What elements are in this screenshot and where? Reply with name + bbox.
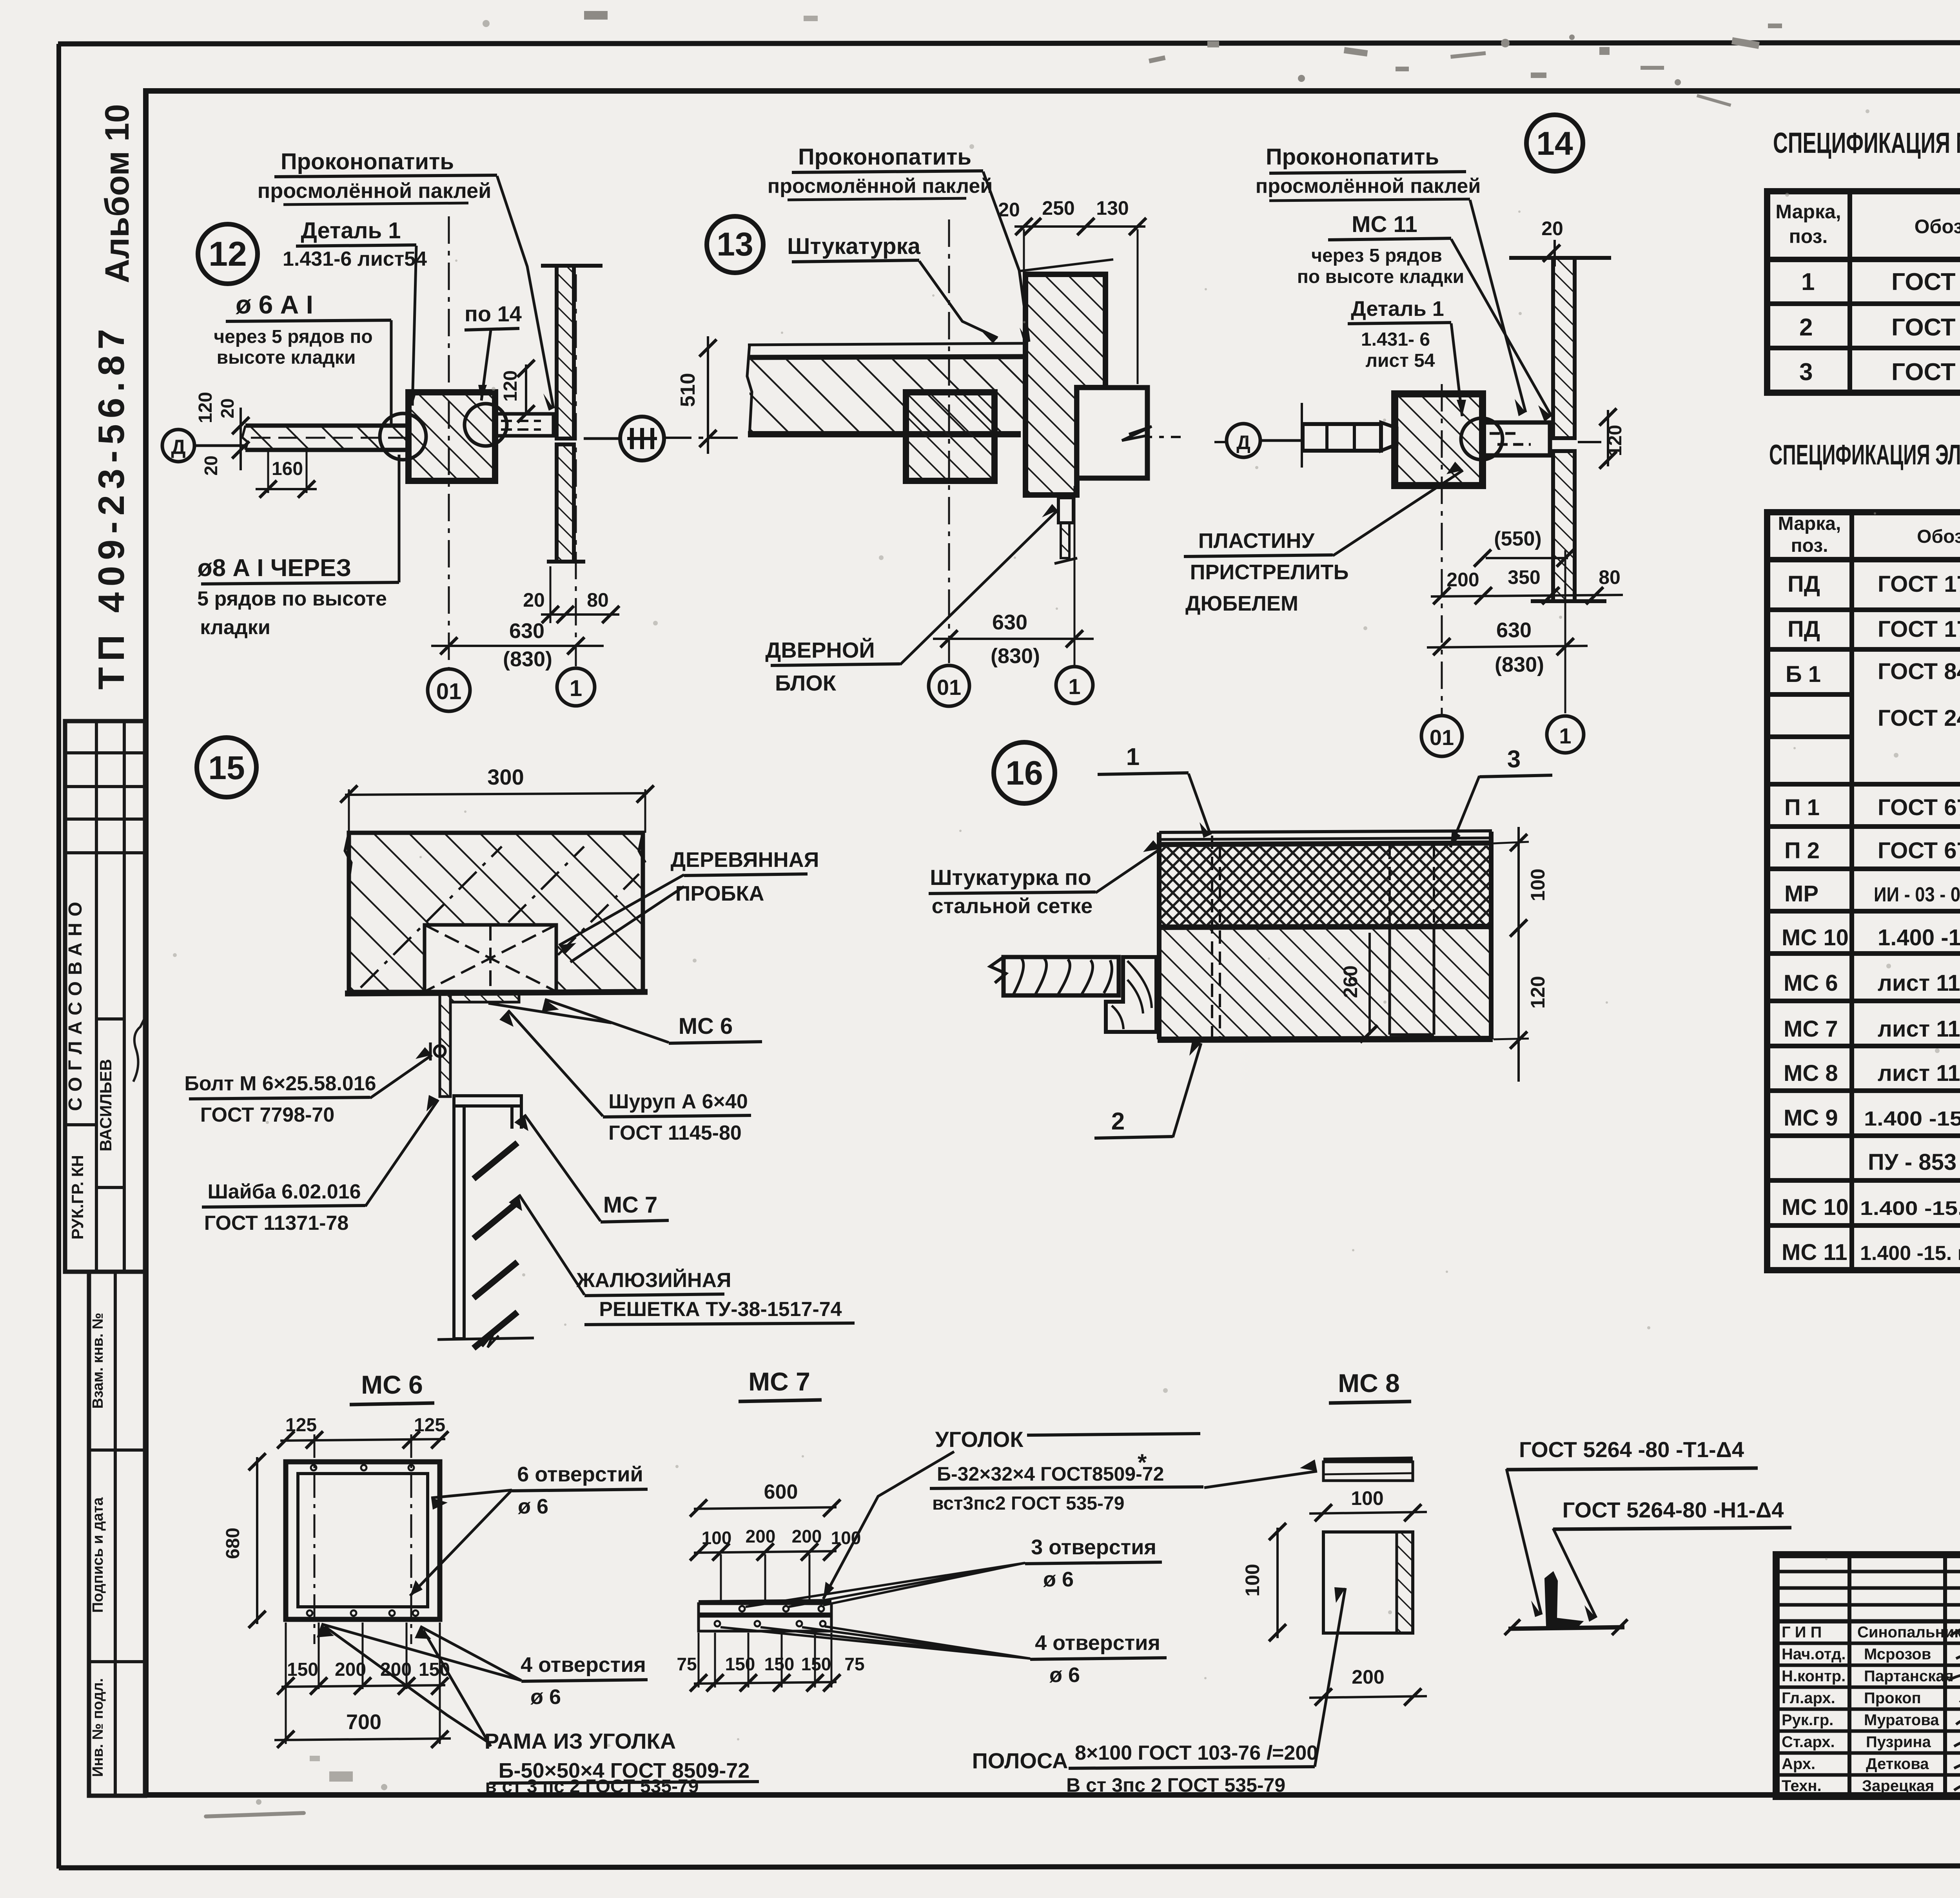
label Шуруп xyxy=(499,1010,751,1144)
svg-text:по высоте кладки: по высоте кладки xyxy=(1297,266,1464,287)
svg-text:ø 6: ø 6 xyxy=(1049,1663,1080,1687)
label Штукатурка по стальной сетке xyxy=(929,840,1160,918)
svg-text:ГОСТ 17280 -79: ГОСТ 17280 -79 xyxy=(1878,571,1960,597)
dim 100 horizontal xyxy=(1309,1487,1427,1521)
svg-text:20: 20 xyxy=(1541,218,1563,239)
svg-text:700: 700 xyxy=(346,1710,381,1734)
svg-text:Д: Д xyxy=(171,436,185,459)
outer border bottom xyxy=(59,1865,1960,1868)
label MC7 xyxy=(514,1115,669,1222)
node 14 bubble xyxy=(1526,115,1583,171)
svg-text:ГОСТ 9573-82: ГОСТ 9573-82 xyxy=(1891,268,1960,295)
position label 3 xyxy=(1450,746,1552,847)
svg-text:(550): (550) xyxy=(1494,528,1541,550)
dim 300 xyxy=(340,765,654,833)
staff rows xyxy=(1782,1624,1960,1795)
svg-text:МР: МР xyxy=(1784,881,1818,906)
svg-text:ø 6: ø 6 xyxy=(518,1495,548,1518)
svg-text:680: 680 xyxy=(223,1528,243,1559)
svg-text:600: 600 xyxy=(764,1481,798,1503)
svg-text:80: 80 xyxy=(587,589,609,611)
svg-text:РУК.ГР. КН: РУК.ГР. КН xyxy=(68,1155,87,1240)
wall panel vertical xyxy=(1509,258,1611,601)
svg-text:лист 54: лист 54 xyxy=(1366,350,1435,371)
svg-text:Партанская: Партанская xyxy=(1864,1668,1954,1685)
svg-text:ø 6 А I: ø 6 А I xyxy=(236,290,313,319)
column section xyxy=(380,392,507,481)
svg-text:5 рядов по высоте: 5 рядов по высоте xyxy=(197,587,387,610)
svg-text:Шайба 6.02.016: Шайба 6.02.016 xyxy=(207,1180,361,1203)
svg-text:1: 1 xyxy=(1126,743,1140,770)
svg-text:просмолённой паклей: просмолённой паклей xyxy=(768,175,993,198)
label MC6 xyxy=(488,999,762,1043)
dims 125 125 xyxy=(277,1415,448,1448)
node 13 bubble xyxy=(707,216,763,273)
svg-text:2: 2 xyxy=(1111,1108,1125,1135)
table 2 grid xyxy=(1767,512,1960,1270)
svg-text:(830): (830) xyxy=(991,644,1040,668)
svg-text:ВАСИЛЬЕВ: ВАСИЛЬЕВ xyxy=(96,1059,115,1151)
svg-text:Гл.арх.: Гл.арх. xyxy=(1782,1690,1835,1707)
svg-text:75: 75 xyxy=(677,1654,697,1674)
svg-text:вст3пс2 ГОСТ 535-79: вст3пс2 ГОСТ 535-79 xyxy=(932,1493,1124,1514)
svg-text:Штукатурка: Штукатурка xyxy=(787,234,920,259)
120 dim at plate xyxy=(500,360,535,422)
svg-text:Болт М 6×25.58.016: Болт М 6×25.58.016 xyxy=(184,1072,376,1095)
svg-text:2: 2 xyxy=(1799,314,1813,341)
dim 20 80 xyxy=(523,566,619,623)
svg-text:ПОЛОСА: ПОЛОСА xyxy=(972,1748,1068,1773)
svg-text:Альбом 10: Альбом 10 xyxy=(98,104,136,283)
svg-text:Муратова: Муратова xyxy=(1864,1711,1939,1729)
svg-text:МС 7: МС 7 xyxy=(748,1367,810,1396)
table 1 data xyxy=(1799,266,1960,388)
svg-text:ГОСТ 5781-82: ГОСТ 5781-82 xyxy=(1891,314,1960,341)
axis III bubble xyxy=(584,417,664,460)
svg-text:через 5 рядов по: через 5 рядов по xyxy=(214,326,372,347)
svg-text:Проконопатить: Проконопатить xyxy=(798,144,971,170)
label 3 отверстия xyxy=(746,1535,1162,1607)
svg-text:ГОСТ 5336-80: ГОСТ 5336-80 xyxy=(1891,359,1960,386)
svg-text:300: 300 xyxy=(487,765,524,789)
table 1 header texts xyxy=(1775,200,1960,258)
dim 630 (830) xyxy=(1427,618,1588,676)
node 16 bubble xyxy=(994,742,1055,803)
svg-text:Ст.арх.: Ст.арх. xyxy=(1782,1733,1835,1751)
svg-text:125: 125 xyxy=(285,1415,317,1436)
svg-text:(830): (830) xyxy=(503,647,552,671)
svg-text:БЛОК: БЛОК xyxy=(775,671,837,695)
svg-text:РАМА ИЗ УГОЛКА: РАМА ИЗ УГОЛКА xyxy=(485,1729,676,1753)
wooden plug xyxy=(425,925,556,992)
svg-text:Г И П: Г И П xyxy=(1782,1624,1822,1641)
svg-text:МС 8: МС 8 xyxy=(1338,1369,1400,1398)
svg-text:ГОСТ 8486 -66: ГОСТ 8486 -66 xyxy=(1878,659,1960,684)
anchor plate xyxy=(1483,422,1550,455)
dims 75 150 150 150 75 xyxy=(677,1633,864,1691)
svg-text:1.431-6 лист54: 1.431-6 лист54 xyxy=(283,248,427,270)
label Рама из уголка xyxy=(325,1626,759,1797)
svg-text:ПРОБКА: ПРОБКА xyxy=(675,882,764,905)
slab section xyxy=(747,343,1025,435)
svg-text:1.431- 6: 1.431- 6 xyxy=(1361,329,1430,350)
wall strip plan xyxy=(242,426,408,450)
position label 2 xyxy=(1094,1039,1201,1138)
svg-text:100: 100 xyxy=(1527,868,1549,901)
louvre slats xyxy=(474,1143,517,1348)
masonry block xyxy=(345,833,648,993)
bottom dims 150 200 200 150 xyxy=(277,1622,450,1744)
top dims 20 250 130 xyxy=(998,197,1146,384)
svg-text:МС 8: МС 8 xyxy=(1784,1060,1838,1086)
dim 630 (830) xyxy=(431,619,604,671)
axis bubble 1 xyxy=(1056,667,1093,703)
svg-text:510: 510 xyxy=(677,373,699,407)
svg-text:Обозначение: Обозначение xyxy=(1915,216,1960,237)
svg-text:(830): (830) xyxy=(1495,653,1544,676)
svg-text:Б 1: Б 1 xyxy=(1786,662,1821,687)
label ø6 AI xyxy=(214,290,391,424)
svg-text:СОГЛАСОВАНО: СОГЛАСОВАНО xyxy=(65,896,86,1111)
svg-text:20: 20 xyxy=(217,398,238,418)
dowel plate below wall xyxy=(1054,498,1077,564)
svg-text:ГОСТ 17280 -79: ГОСТ 17280 -79 xyxy=(1878,616,1960,642)
svg-text:1: 1 xyxy=(1068,674,1080,699)
svg-text:ПЛАСТИНУ: ПЛАСТИНУ xyxy=(1198,529,1315,553)
right dims 100 120 xyxy=(1494,827,1549,1082)
svg-text:ПД: ПД xyxy=(1788,616,1820,642)
svg-text:СПЕЦИФИКАЦИЯ ЭЛЕМЕНТОВ ЗАМА: СПЕЦИФИКАЦИЯ ЭЛЕМЕНТОВ ЗАМАРКИРОВАННЫХ Н… xyxy=(1769,439,1960,471)
axis lines xyxy=(1441,384,1443,714)
svg-text:100: 100 xyxy=(1351,1487,1383,1509)
svg-text:П 2: П 2 xyxy=(1784,838,1820,863)
svg-text:Проконопатить: Проконопатить xyxy=(1266,144,1439,170)
svg-text:200: 200 xyxy=(1446,569,1479,591)
svg-text:В ст 3пс 2 ГОСТ 535-79: В ст 3пс 2 ГОСТ 535-79 xyxy=(1066,1774,1285,1796)
svg-text:лист 11: лист 11 xyxy=(1878,1060,1960,1086)
svg-text:3 отверстия: 3 отверстия xyxy=(1031,1535,1156,1559)
svg-text:в ст 3 пс 2 ГОСТ 535-79: в ст 3 пс 2 ГОСТ 535-79 xyxy=(485,1776,699,1797)
label Болт М6 xyxy=(184,1047,432,1126)
dim 20 top xyxy=(1541,218,1563,266)
svg-text:по 14: по 14 xyxy=(465,301,522,326)
grille bottom break xyxy=(437,1332,534,1347)
svg-text:Обозначение: Обозначение xyxy=(1917,526,1960,547)
svg-text:П 1: П 1 xyxy=(1784,795,1820,820)
svg-text:кладки: кладки xyxy=(200,616,270,639)
axis bubble 01 xyxy=(929,665,969,706)
svg-text:ПРИСТРЕЛИТЬ: ПРИСТРЕЛИТЬ xyxy=(1190,560,1349,584)
grille channel MC7 xyxy=(454,1096,521,1339)
label Жалюзийная решетка xyxy=(509,1195,855,1325)
svg-text:630: 630 xyxy=(1496,618,1532,642)
top flange xyxy=(1323,1459,1413,1481)
brick band xyxy=(1158,832,1493,1040)
svg-text:МС 9: МС 9 xyxy=(1784,1105,1838,1131)
node 15 bubble xyxy=(197,738,256,797)
axis Д bubble xyxy=(162,430,245,462)
label Шайба xyxy=(202,1095,438,1235)
table 2 header texts xyxy=(1778,512,1960,565)
window sill board xyxy=(990,957,1156,1032)
position label 1 xyxy=(1098,743,1210,838)
svg-text:МС 6: МС 6 xyxy=(1784,970,1838,996)
svg-text:75: 75 xyxy=(844,1654,864,1674)
weld label T1 xyxy=(1506,1437,1758,1617)
svg-text:200: 200 xyxy=(335,1659,366,1680)
dims 200 350 80 xyxy=(1431,566,1623,604)
svg-text:просмолённой паклей: просмолённой паклей xyxy=(1256,175,1481,198)
anchor rod xyxy=(1302,403,1397,468)
table 1 grid xyxy=(1767,191,1960,393)
svg-text:20: 20 xyxy=(998,199,1020,221)
svg-text:Н.контр.: Н.контр. xyxy=(1782,1668,1846,1685)
svg-text:ТП 409-23-56.87: ТП 409-23-56.87 xyxy=(91,323,132,689)
label 4 отверстия xyxy=(317,1624,648,1709)
svg-text:Инв. № подл.: Инв. № подл. xyxy=(90,1678,106,1777)
signatures xyxy=(1948,1625,1960,1834)
svg-text:16: 16 xyxy=(1005,754,1043,792)
dim 260 xyxy=(1339,933,1377,1042)
svg-text:ПД: ПД xyxy=(1788,571,1820,597)
dim 630 (830) xyxy=(933,611,1094,668)
svg-text:3: 3 xyxy=(1799,359,1813,386)
svg-text:1.400 -15: 1.400 -15 xyxy=(1878,925,1960,950)
svg-text:20: 20 xyxy=(201,455,221,475)
svg-text:Техн.: Техн. xyxy=(1782,1777,1822,1795)
title MC 6 xyxy=(350,1370,434,1405)
svg-text:250: 250 xyxy=(1042,197,1074,219)
svg-text:ГОСТ 1145-80: ГОСТ 1145-80 xyxy=(608,1122,742,1144)
wall pier xyxy=(1018,259,1113,495)
svg-text:260: 260 xyxy=(1339,965,1361,998)
svg-text:350: 350 xyxy=(1508,566,1540,588)
svg-text:Шуруп А 6×40: Шуруп А 6×40 xyxy=(608,1090,748,1113)
anchor plate right xyxy=(495,414,554,436)
label Деталь 1 xyxy=(1348,297,1466,416)
svg-text:Подпись и дата: Подпись и дата xyxy=(90,1497,106,1613)
svg-text:Рук.гр.: Рук.гр. xyxy=(1782,1711,1833,1729)
svg-text:12: 12 xyxy=(209,234,247,273)
svg-text:МС 7: МС 7 xyxy=(603,1192,658,1218)
svg-text:100: 100 xyxy=(1241,1564,1263,1596)
svg-text:поз.: поз. xyxy=(1789,225,1828,247)
svg-text:13: 13 xyxy=(717,226,753,263)
label Дверной блок xyxy=(765,504,1058,695)
embedded channel in brick xyxy=(1390,928,1434,1035)
svg-text:ПУ - 853 - 67: ПУ - 853 - 67 xyxy=(1868,1149,1960,1175)
dim 680 xyxy=(223,1453,266,1628)
svg-text:ЖАЛЮЗИЙНАЯ: ЖАЛЮЗИЙНАЯ xyxy=(576,1269,731,1292)
svg-text:Проконопатить: Проконопатить xyxy=(281,149,454,174)
svg-text:ДЮБЕЛЕМ: ДЮБЕЛЕМ xyxy=(1185,592,1298,615)
door frame stub xyxy=(1077,388,1152,478)
svg-text:ГОСТ 5264-80 -Н1-Δ4: ГОСТ 5264-80 -Н1-Δ4 xyxy=(1563,1497,1784,1522)
label Проконопатить просмолённой паклей xyxy=(1256,144,1526,416)
svg-text:Марка,: Марка, xyxy=(1775,201,1841,223)
svg-text:высоте кладки: высоте кладки xyxy=(217,347,356,368)
svg-text:01: 01 xyxy=(1430,725,1454,750)
dims 100 200 200 100 xyxy=(690,1526,861,1601)
svg-text:ДЕРЕВЯННАЯ: ДЕРЕВЯННАЯ xyxy=(671,848,819,872)
svg-text:120: 120 xyxy=(1527,976,1549,1008)
svg-text:стальной сетке: стальной сетке xyxy=(932,894,1093,918)
svg-text:80: 80 xyxy=(1599,566,1621,588)
label Проконопатить просмолённой паклей xyxy=(258,149,554,411)
svg-text:1: 1 xyxy=(570,676,582,701)
center line xyxy=(1214,441,1604,443)
label Пластину пристрелить дюбелем xyxy=(1184,462,1463,615)
axis Д bubble xyxy=(1227,424,1302,457)
angle bar plan xyxy=(699,1601,831,1631)
svg-text:120: 120 xyxy=(195,392,216,423)
svg-text:1.400 -15. в1: 1.400 -15. в1 xyxy=(1860,1242,1960,1265)
angle MC6 under block xyxy=(430,993,519,1097)
axis bubble 01 xyxy=(1421,716,1462,756)
label Штукатурка xyxy=(787,234,998,343)
svg-text:Синопальников: Синопальников xyxy=(1857,1624,1960,1641)
axis lines xyxy=(948,219,950,664)
left stamp table lower xyxy=(89,1272,145,1796)
svg-text:Зарецкая: Зарецкая xyxy=(1862,1777,1934,1795)
svg-text:ø8 А I ЧЕРЕЗ: ø8 А I ЧЕРЕЗ xyxy=(198,555,352,582)
svg-text:Деталь 1: Деталь 1 xyxy=(301,218,401,243)
side square xyxy=(1323,1532,1413,1633)
svg-text:поз.: поз. xyxy=(1791,535,1828,556)
svg-text:3: 3 xyxy=(1507,746,1521,773)
svg-text:01: 01 xyxy=(436,679,462,704)
frame square xyxy=(286,1434,440,1644)
svg-text:МС 10: МС 10 xyxy=(1782,1195,1849,1220)
label Проконопатить просмолённой паклей xyxy=(768,144,1029,344)
table 2 data rows xyxy=(1782,571,1960,1265)
svg-text:СПЕЦИФИКАЦИЯ МИНЕРАЛОВАТНЫХ: СПЕЦИФИКАЦИЯ МИНЕРАЛОВАТНЫХ ПЛИТ И ЭЛЕМЕ… xyxy=(1773,127,1960,159)
svg-text:1: 1 xyxy=(1801,268,1815,295)
dim 510 xyxy=(677,336,717,454)
dim 100 vertical xyxy=(1241,1523,1286,1641)
svg-text:Нач.отд.: Нач.отд. xyxy=(1782,1646,1846,1663)
center line xyxy=(664,437,1181,438)
svg-text:Прокоп: Прокоп xyxy=(1864,1690,1921,1707)
column section xyxy=(1395,394,1503,486)
title MC 8 xyxy=(1329,1369,1411,1403)
plaster lines top xyxy=(1158,831,1493,845)
axis line 1 xyxy=(575,274,577,666)
svg-text:150: 150 xyxy=(801,1654,831,1674)
svg-text:*: * xyxy=(1138,1449,1147,1476)
svg-text:200: 200 xyxy=(746,1526,776,1546)
svg-text:ГОСТ 24454-80: ГОСТ 24454-80 xyxy=(1878,705,1960,731)
svg-text:МС 6: МС 6 xyxy=(361,1370,423,1399)
svg-text:630: 630 xyxy=(992,611,1027,634)
wall panel vertical xyxy=(541,266,603,562)
svg-text:150: 150 xyxy=(287,1659,318,1680)
label Полоса xyxy=(972,1587,1345,1796)
label ø8 AI через xyxy=(197,455,399,639)
hidden element lines xyxy=(1212,836,1434,1041)
svg-text:МС 10: МС 10 xyxy=(1782,925,1849,950)
node 12 bubble xyxy=(198,224,258,284)
left small dims 120/20 xyxy=(195,392,317,498)
dim 200 xyxy=(1309,1666,1427,1706)
svg-text:15: 15 xyxy=(208,749,245,786)
label Уголок xyxy=(823,1427,1317,1599)
svg-text:ИИ - 03 - 03 альбом 71- 64: ИИ - 03 - 03 альбом 71- 64 xyxy=(1874,883,1960,906)
mineral wool band xyxy=(1158,846,1493,927)
scan noise specks xyxy=(204,11,1782,1818)
svg-text:Б-32×32×4 ГОСТ8509-72: Б-32×32×4 ГОСТ8509-72 xyxy=(937,1463,1164,1485)
svg-text:1.400 -15. в.1.810 - 09: 1.400 -15. в.1.810 - 09 xyxy=(1860,1197,1960,1219)
svg-text:1.400 -15 в. 1.510 -15: 1.400 -15 в. 1.510 -15 xyxy=(1864,1108,1960,1130)
svg-text:160: 160 xyxy=(272,459,303,479)
axis bubble 01 xyxy=(428,669,470,711)
dim 700 xyxy=(274,1710,451,1748)
svg-text:6 отверстий: 6 отверстий xyxy=(517,1463,643,1486)
outer border top xyxy=(58,42,1960,44)
svg-text:МС 11: МС 11 xyxy=(1352,212,1417,237)
svg-text:МС 7: МС 7 xyxy=(1784,1016,1838,1042)
svg-text:Деткова: Деткова xyxy=(1866,1755,1929,1773)
svg-text:УГОЛОК: УГОЛОК xyxy=(935,1427,1024,1452)
svg-text:Марка,: Марка, xyxy=(1778,513,1841,534)
svg-text:200: 200 xyxy=(1352,1666,1384,1688)
svg-text:ГОСТ 5264 -80 -Т1-Δ4: ГОСТ 5264 -80 -Т1-Δ4 xyxy=(1519,1437,1744,1462)
svg-text:Арх.: Арх. xyxy=(1782,1755,1815,1773)
weld label H1 xyxy=(1553,1497,1791,1622)
svg-text:Взам. кнв. №: Взам. кнв. № xyxy=(90,1313,106,1409)
weld symbol xyxy=(1504,1572,1628,1635)
title MC 7 xyxy=(739,1367,822,1401)
svg-text:8×100 ГОСТ 103-76 l=200: 8×100 ГОСТ 103-76 l=200 xyxy=(1075,1742,1318,1764)
svg-text:14: 14 xyxy=(1536,125,1573,162)
outer border left xyxy=(56,44,61,1869)
label Деталь 1 xyxy=(283,218,427,406)
svg-text:4 отверстия: 4 отверстия xyxy=(521,1653,646,1677)
svg-text:МС 11: МС 11 xyxy=(1782,1240,1847,1265)
axis bubble 1 xyxy=(557,668,595,706)
svg-text:150: 150 xyxy=(725,1654,755,1674)
svg-text:150: 150 xyxy=(764,1654,795,1674)
svg-text:1: 1 xyxy=(1559,723,1571,748)
axis line 01 xyxy=(448,216,450,668)
svg-text:ГОСТ 11371-78: ГОСТ 11371-78 xyxy=(204,1212,349,1235)
svg-text:ø 6: ø 6 xyxy=(1043,1568,1074,1591)
svg-text:630: 630 xyxy=(509,619,544,643)
dim (550) xyxy=(1474,528,1574,567)
svg-text:ДВЕРНОЙ: ДВЕРНОЙ xyxy=(765,638,875,662)
svg-text:через 5 рядов: через 5 рядов xyxy=(1311,245,1442,266)
svg-text:20: 20 xyxy=(523,589,545,611)
svg-text:130: 130 xyxy=(1096,197,1129,219)
svg-text:просмолённой паклей: просмолённой паклей xyxy=(258,179,492,203)
svg-text:Д: Д xyxy=(1236,431,1250,453)
svg-text:Пузрина: Пузрина xyxy=(1866,1733,1931,1751)
label по 14 xyxy=(465,301,522,401)
label Деревянная пробка xyxy=(559,848,819,962)
dim 120 right xyxy=(1599,408,1626,469)
svg-text:01: 01 xyxy=(937,675,961,700)
svg-text:4 отверстия: 4 отверстия xyxy=(1035,1631,1160,1655)
svg-text:РЕШЕТКА ТУ-38-1517-74: РЕШЕТКА ТУ-38-1517-74 xyxy=(599,1298,842,1321)
label 4 отверстия xyxy=(720,1626,1167,1687)
svg-text:Деталь 1: Деталь 1 xyxy=(1351,297,1444,321)
left stamp table upper xyxy=(65,721,145,1272)
svg-text:ГОСТ 6780 - 80: ГОСТ 6780 - 80 xyxy=(1878,838,1960,863)
svg-text:Мсрозов: Мсрозов xyxy=(1864,1646,1931,1663)
label МС 11 xyxy=(1297,212,1552,422)
svg-text:ГОСТ 6780 - 80: ГОСТ 6780 - 80 xyxy=(1878,795,1960,820)
square block on axis 01 xyxy=(906,392,995,481)
